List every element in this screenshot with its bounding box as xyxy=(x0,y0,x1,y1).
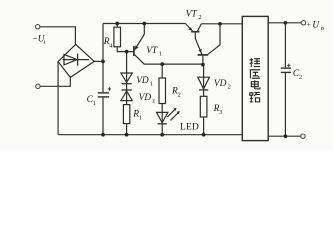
svg-text:LED: LED xyxy=(180,122,199,132)
svg-text:z: z xyxy=(152,97,155,104)
svg-text:VD: VD xyxy=(136,76,149,86)
svg-text:o: o xyxy=(321,25,324,32)
svg-text:1: 1 xyxy=(159,50,162,57)
svg-text:1: 1 xyxy=(150,80,153,87)
svg-text:VD: VD xyxy=(214,79,227,89)
svg-text:2: 2 xyxy=(178,91,181,98)
svg-text:VD: VD xyxy=(139,93,152,103)
svg-text:i: i xyxy=(43,39,45,46)
svg-text:U: U xyxy=(312,21,320,31)
svg-text:3: 3 xyxy=(219,109,222,116)
svg-text:1: 1 xyxy=(139,114,142,121)
svg-text:2: 2 xyxy=(198,14,201,21)
svg-text:+: + xyxy=(307,20,311,29)
svg-text:VT: VT xyxy=(186,9,198,19)
svg-text:1: 1 xyxy=(93,100,96,107)
svg-text:4: 4 xyxy=(109,43,113,50)
svg-text:2: 2 xyxy=(228,84,231,91)
svg-text:VT: VT xyxy=(146,46,158,56)
svg-text:2: 2 xyxy=(299,74,302,81)
